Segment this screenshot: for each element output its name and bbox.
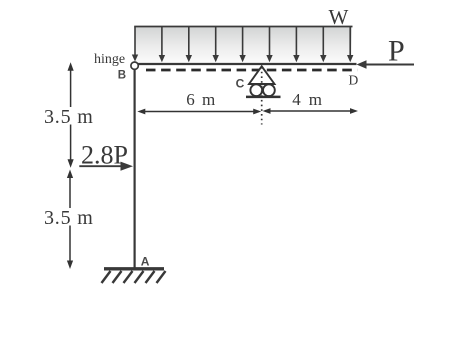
force 2.8P arrow — [79, 162, 133, 171]
dimension 3.5 m lower line — [67, 170, 73, 270]
distributed load top edge line — [134, 26, 352, 28]
fixed support hatch 4 — [135, 271, 144, 283]
dimension 4 m line — [263, 108, 359, 114]
distributed load arrow 5 — [242, 27, 244, 56]
fixed support hatch 6 — [157, 271, 166, 283]
svg-text:6: 6 — [186, 90, 195, 109]
distributed load arrow 7 — [295, 27, 297, 56]
distributed load arrow 6 — [269, 27, 271, 56]
column A-B — [134, 69, 136, 270]
roller circle left — [250, 84, 262, 96]
svg-text:m: m — [309, 90, 322, 109]
svg-text:3.5 m: 3.5 m — [44, 207, 94, 229]
svg-text:B: B — [118, 69, 126, 81]
centerline dotted through C — [261, 67, 263, 125]
svg-text:3.5 m: 3.5 m — [44, 106, 94, 128]
fixed support ground line at A — [104, 267, 164, 270]
svg-text:A: A — [141, 255, 150, 269]
dimension 6 m line — [137, 109, 261, 115]
fixed support hatch 3 — [124, 271, 133, 283]
force P arrow — [357, 60, 415, 68]
svg-text:m: m — [202, 90, 215, 109]
roller support triangle at C — [249, 66, 275, 84]
label 3.5 m lower — [43, 208, 93, 226]
distributed load W block fill — [135, 27, 352, 64]
roller ground line — [246, 96, 281, 99]
distributed load arrow 3 — [188, 27, 190, 56]
hinge circle at B — [131, 62, 138, 69]
fixed support hatch 2 — [113, 271, 122, 283]
distributed load arrow 8 — [322, 27, 324, 56]
beam B-D solid line — [138, 63, 357, 65]
fixed support hatch 5 — [146, 271, 155, 283]
svg-text:hinge: hinge — [94, 52, 125, 67]
fixed support hatch 1 — [102, 271, 166, 283]
svg-text:C: C — [236, 76, 245, 90]
distributed load arrow 2 — [161, 27, 163, 56]
distributed load arrow 9 — [349, 27, 351, 56]
svg-text:D: D — [349, 73, 359, 88]
distributed load arrow 4 — [215, 27, 217, 56]
distributed load arrow 1 — [132, 27, 354, 63]
svg-text:4: 4 — [292, 90, 301, 109]
label 3.5 m upper — [43, 107, 93, 125]
svg-text:2.8P: 2.8P — [81, 141, 128, 170]
svg-text:W: W — [329, 5, 349, 29]
roller circle right — [263, 84, 275, 96]
dimension 3.5 m upper line — [68, 62, 74, 168]
svg-text:P: P — [388, 34, 405, 67]
beam dashed line — [146, 69, 358, 72]
